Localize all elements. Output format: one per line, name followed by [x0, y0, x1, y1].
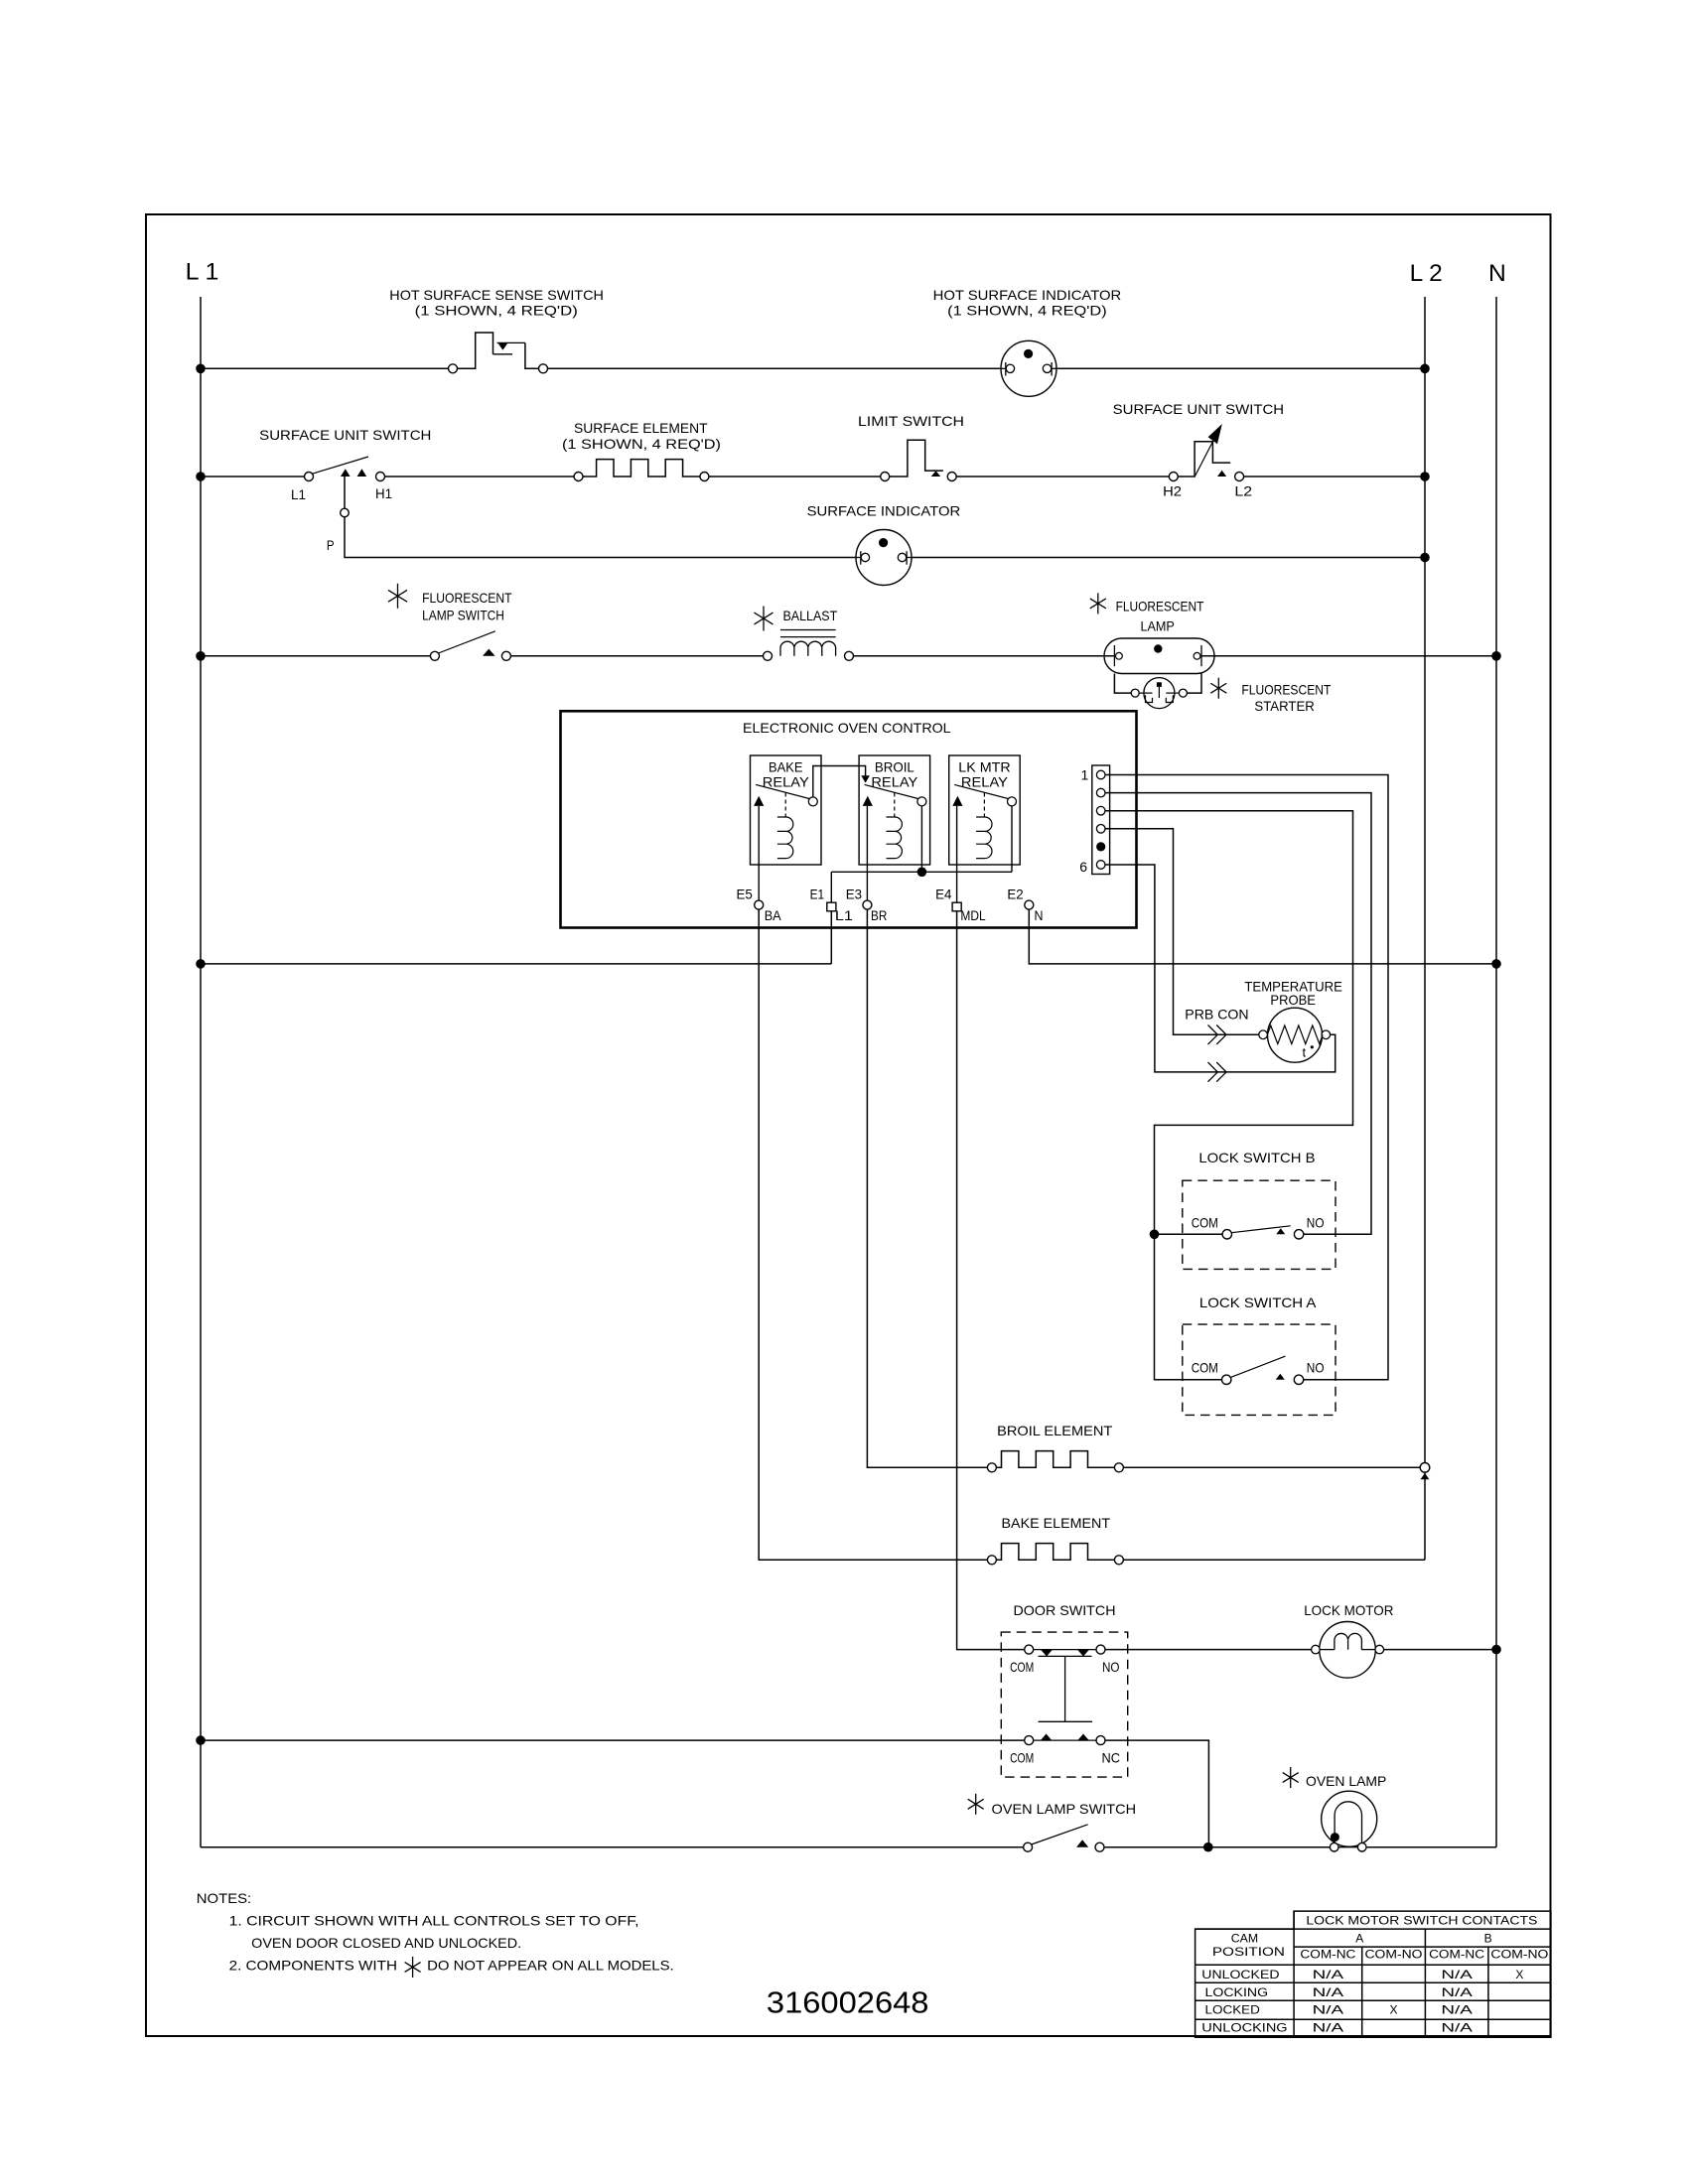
- junction L1/mid rail: [196, 959, 206, 969]
- svg-text:SURFACE INDICATOR: SURFACE INDICATOR: [807, 503, 961, 519]
- terminal E4: [952, 902, 961, 911]
- svg-text:OVEN LAMP: OVEN LAMP: [1306, 1773, 1386, 1789]
- terminal E2: [1025, 900, 1034, 909]
- drawing border frame: [146, 214, 1551, 2036]
- svg-text:H1: H1: [375, 485, 392, 501]
- wire surface element to limit switch: [709, 476, 881, 478]
- asterisk fluorescent starter: [1210, 678, 1226, 699]
- svg-text:UNLOCKING: UNLOCKING: [1201, 2021, 1287, 2035]
- svg-text:N: N: [1488, 260, 1506, 287]
- svg-text:A: A: [1355, 1932, 1363, 1946]
- svg-text:RELAY: RELAY: [763, 774, 810, 790]
- oven lamp switch: [1024, 1825, 1104, 1851]
- wire broil relay armature to E3: [866, 806, 868, 900]
- svg-text:E5: E5: [737, 887, 754, 902]
- svg-text:LOCK SWITCH B: LOCK SWITCH B: [1198, 1150, 1315, 1165]
- svg-text:316002648: 316002648: [767, 1985, 929, 2020]
- bus L2 (vertical): [1424, 297, 1426, 1463]
- junction L1/row1: [196, 364, 206, 374]
- svg-text:NO: NO: [1307, 1215, 1325, 1231]
- svg-text:(1 SHOWN, 4 REQ'D): (1 SHOWN, 4 REQ'D): [947, 303, 1106, 319]
- asterisk fluorescent lamp: [1090, 593, 1106, 614]
- svg-text:FLUORESCENT: FLUORESCENT: [1241, 682, 1331, 698]
- lock motor: [1312, 1622, 1384, 1679]
- bake element: [987, 1544, 1123, 1565]
- svg-text:LOCK MOTOR: LOCK MOTOR: [1304, 1602, 1393, 1618]
- svg-text:UNLOCKED: UNLOCKED: [1201, 1968, 1280, 1981]
- svg-text:BROIL ELEMENT: BROIL ELEMENT: [997, 1423, 1113, 1438]
- svg-text:t: t: [1303, 1045, 1307, 1060]
- junction pin3 wire / lock switch B COM: [1150, 1230, 1160, 1240]
- svg-text:DOOR SWITCH: DOOR SWITCH: [1014, 1602, 1116, 1618]
- svg-text:DO NOT APPEAR ON ALL MODELS.: DO NOT APPEAR ON ALL MODELS.: [427, 1958, 674, 1974]
- junction L1/row2: [196, 472, 206, 481]
- oven lamp: [1322, 1791, 1377, 1851]
- svg-text:OVEN LAMP SWITCH: OVEN LAMP SWITCH: [992, 1801, 1137, 1817]
- wire surface indicator to L2: [912, 557, 1425, 559]
- wire broil NO contact down: [920, 806, 922, 872]
- svg-text:1. CIRCUIT SHOWN WITH ALL CON: 1. CIRCUIT SHOWN WITH ALL CONTROLS SET T…: [229, 1913, 639, 1929]
- svg-text:NOTES:: NOTES:: [197, 1890, 251, 1906]
- svg-text:RELAY: RELAY: [871, 774, 918, 790]
- wire E4/MDL down to door switch COM: [957, 911, 1025, 1650]
- bus L1 (vertical): [200, 297, 202, 1847]
- wire L1 to surface unit switch: [201, 476, 305, 478]
- wire H1 to surface element: [385, 476, 575, 478]
- svg-text:STARTER: STARTER: [1254, 698, 1314, 714]
- surface element: [574, 460, 709, 481]
- junction L2/row1: [1420, 364, 1430, 374]
- svg-text:HOT SURFACE INDICATOR: HOT SURFACE INDICATOR: [933, 287, 1122, 303]
- junction door NC wire / lamp rail: [1203, 1843, 1213, 1852]
- svg-text:COM: COM: [1192, 1360, 1218, 1376]
- lock switch A dashed box: [1183, 1324, 1336, 1415]
- svg-text:POSITION: POSITION: [1212, 1945, 1285, 1959]
- wire E1 riser: [830, 872, 832, 902]
- hot surface sense switch: [449, 333, 548, 373]
- svg-text:LAMP SWITCH: LAMP SWITCH: [422, 607, 504, 622]
- svg-text:N/A: N/A: [1441, 1968, 1473, 1981]
- wire lk mtr relay armature to E4: [956, 806, 958, 902]
- connector PRB CON chevron 2: [1208, 1062, 1227, 1082]
- connector PRB CON chevron 1: [1208, 1025, 1227, 1045]
- wire bake NO contact to broil blade: [813, 766, 870, 797]
- svg-text:B: B: [1484, 1932, 1492, 1946]
- svg-text:N: N: [1035, 907, 1044, 923]
- wire pin3 to lock switches COM: [1105, 811, 1353, 1380]
- wire L1 to sense switch: [201, 367, 449, 369]
- svg-text:LOCK MOTOR SWITCH CONTACTS: LOCK MOTOR SWITCH CONTACTS: [1306, 1914, 1537, 1928]
- wire limit switch to H2: [956, 476, 1169, 478]
- svg-text:N/A: N/A: [1313, 2003, 1344, 2017]
- svg-text:OVEN DOOR CLOSED AND UNLOCKED.: OVEN DOOR CLOSED AND UNLOCKED.: [251, 1935, 521, 1951]
- svg-text:NO: NO: [1102, 1659, 1120, 1675]
- svg-text:E3: E3: [846, 887, 863, 902]
- wire pin1 to lock switch A NO: [1105, 775, 1388, 1380]
- svg-text:SURFACE UNIT SWITCH: SURFACE UNIT SWITCH: [1113, 401, 1284, 417]
- lock switch B dashed box: [1183, 1180, 1336, 1269]
- junction L2/row2: [1420, 472, 1430, 481]
- svg-text:X: X: [1515, 1968, 1523, 1981]
- svg-text:ELECTRONIC OVEN CONTROL: ELECTRONIC OVEN CONTROL: [743, 720, 951, 736]
- wire pin4 to probe connector: [1105, 829, 1259, 1035]
- svg-text:CAM: CAM: [1231, 1932, 1258, 1946]
- svg-text:LOCKED: LOCKED: [1205, 2003, 1261, 2017]
- fluorescent lamp switch: [430, 631, 510, 661]
- wire bake relay armature to E5: [758, 806, 760, 900]
- wire sense switch to hot surface indicator: [548, 367, 1002, 369]
- note 2 asterisk: [405, 1957, 421, 1978]
- limit switch: [881, 440, 957, 480]
- svg-text:L 2: L 2: [1410, 260, 1443, 287]
- terminal E3: [863, 900, 872, 909]
- lock switch B contacts: [1222, 1226, 1304, 1239]
- wire broil element to L2 terminal: [1123, 1466, 1420, 1468]
- svg-text:LK MTR: LK MTR: [958, 758, 1010, 774]
- svg-text:COM-NO: COM-NO: [1490, 1947, 1548, 1961]
- wire ballast to fluorescent lamp: [854, 655, 1116, 657]
- wire fluorescent lamp to N: [1200, 655, 1496, 657]
- electronic oven control box: [561, 711, 1137, 927]
- svg-text:L2: L2: [1234, 482, 1252, 498]
- svg-text:LOCK SWITCH A: LOCK SWITCH A: [1199, 1295, 1317, 1310]
- svg-text:H2: H2: [1163, 482, 1182, 498]
- surface unit switch (right): [1169, 424, 1243, 481]
- svg-text:N/A: N/A: [1313, 2021, 1344, 2035]
- wire P tap upper: [344, 477, 346, 508]
- svg-text:BALLAST: BALLAST: [783, 608, 838, 623]
- asterisk oven lamp switch: [968, 1794, 984, 1815]
- hot surface indicator lamp: [1001, 341, 1056, 396]
- connector J1 (6-pin): [1092, 765, 1110, 875]
- door switch upper contact (COM-NO): [1025, 1645, 1105, 1656]
- svg-text:N/A: N/A: [1441, 2003, 1473, 2017]
- relay K2 broil relay: [859, 755, 930, 865]
- wire E3/BR down to broil element: [867, 909, 987, 1467]
- svg-text:X: X: [1389, 2003, 1397, 2017]
- svg-text:6: 6: [1079, 859, 1087, 875]
- asterisk fluorescent lamp switch: [388, 584, 407, 609]
- asterisk oven lamp: [1283, 1767, 1299, 1788]
- svg-text:BAKE: BAKE: [769, 758, 802, 774]
- svg-text:SURFACE UNIT SWITCH: SURFACE UNIT SWITCH: [259, 427, 431, 443]
- svg-text:P: P: [327, 537, 335, 553]
- wire bake element to L2: [1123, 1559, 1425, 1561]
- svg-text:L1: L1: [835, 907, 853, 923]
- wire lamp left leg to starter: [1114, 674, 1131, 694]
- broil element: [987, 1451, 1123, 1472]
- surface indicator lamp: [856, 530, 912, 586]
- terminal broil/bake to L2: [1420, 1463, 1430, 1480]
- fluorescent lamp: [1104, 638, 1214, 674]
- svg-text:COM-NC: COM-NC: [1300, 1947, 1355, 1961]
- svg-text:N/A: N/A: [1441, 2021, 1473, 2035]
- door switch dashed box: [1001, 1632, 1127, 1777]
- svg-text:L1: L1: [291, 486, 306, 502]
- svg-text:SURFACE ELEMENT: SURFACE ELEMENT: [574, 420, 708, 436]
- door switch lower contact (COM-NC): [1025, 1734, 1105, 1745]
- wire lamp right leg to starter: [1187, 674, 1201, 694]
- svg-text:E4: E4: [935, 887, 952, 902]
- svg-text:NO: NO: [1307, 1360, 1325, 1376]
- svg-text:COM-NO: COM-NO: [1365, 1947, 1423, 1961]
- wire L1 to E1 (mid rail): [201, 911, 831, 964]
- connector P: [341, 508, 350, 517]
- ballast: [764, 630, 854, 661]
- svg-text:N/A: N/A: [1441, 1985, 1473, 1999]
- wire E1 to relay contacts: [831, 871, 1012, 873]
- bus N (vertical): [1495, 297, 1497, 1847]
- lock switch A contacts: [1222, 1356, 1304, 1384]
- svg-text:E2: E2: [1007, 887, 1024, 902]
- door switch actuator link: [1039, 1656, 1093, 1721]
- wire L1 to door switch lower COM: [201, 1739, 1025, 1741]
- wire hot surface indicator to L2: [1056, 367, 1425, 369]
- svg-text:COM: COM: [1010, 1750, 1034, 1766]
- svg-text:LIMIT SWITCH: LIMIT SWITCH: [858, 413, 964, 429]
- wire L1 to fluorescent lamp switch: [201, 655, 430, 657]
- svg-text:COM: COM: [1010, 1659, 1034, 1675]
- junction L2/row3: [1420, 553, 1430, 563]
- wire pin2 to lock switch B NO: [1105, 793, 1371, 1235]
- surface unit switch (left): [305, 457, 385, 481]
- svg-text:N/A: N/A: [1313, 1968, 1344, 1981]
- svg-text:FLUORESCENT: FLUORESCENT: [422, 590, 512, 606]
- svg-text:NC: NC: [1102, 1750, 1121, 1766]
- wire door switch NO to lock motor: [1105, 1649, 1318, 1651]
- wire P tap lower: [345, 517, 856, 558]
- svg-text:BROIL: BROIL: [875, 758, 914, 774]
- svg-text:BR: BR: [871, 907, 887, 923]
- wire door switch NC down to lamp rail: [1105, 1740, 1208, 1847]
- wire E2 to N (mid rail): [1029, 909, 1496, 964]
- svg-text:(1 SHOWN, 4 REQ'D): (1 SHOWN, 4 REQ'D): [415, 303, 578, 319]
- svg-text:RELAY: RELAY: [961, 774, 1009, 790]
- svg-text:COM-NC: COM-NC: [1429, 1947, 1484, 1961]
- svg-text:MDL: MDL: [960, 907, 985, 923]
- wire lock motor to N: [1384, 1649, 1496, 1651]
- svg-text:BAKE ELEMENT: BAKE ELEMENT: [1002, 1515, 1111, 1531]
- table lock motor switch contacts grid: [1196, 1911, 1551, 2037]
- svg-text:FLUORESCENT: FLUORESCENT: [1116, 599, 1204, 614]
- wire L2-term to L2 bus: [1244, 476, 1425, 478]
- asterisk ballast: [755, 607, 774, 631]
- junction N/mid rail: [1491, 959, 1501, 969]
- junction L1/row4: [196, 651, 206, 661]
- fluorescent starter: [1131, 678, 1187, 709]
- svg-text:(1 SHOWN, 4 REQ'D): (1 SHOWN, 4 REQ'D): [562, 436, 721, 452]
- junction N/lock motor row: [1491, 1645, 1501, 1655]
- svg-text:L 1: L 1: [186, 259, 219, 286]
- svg-text:BA: BA: [765, 907, 782, 923]
- svg-text:E1: E1: [810, 887, 825, 902]
- wire L1 down-left corner to oven lamp switch: [201, 1846, 1024, 1848]
- wire junction to lock switch B COM: [1155, 1233, 1223, 1235]
- svg-text:PRB CON: PRB CON: [1185, 1007, 1248, 1023]
- svg-text:N/A: N/A: [1313, 1985, 1344, 1999]
- terminal E5: [755, 900, 764, 909]
- wire lk mtr NO contact down: [1011, 806, 1013, 872]
- junction N/row4: [1491, 651, 1501, 661]
- wire switch to ballast: [510, 655, 763, 657]
- junction broil contact / E1 wire: [917, 868, 927, 878]
- wire between oven lamp terminals: [1338, 1846, 1357, 1848]
- svg-text:LAMP: LAMP: [1141, 618, 1175, 634]
- relay K3 lock motor relay: [949, 755, 1020, 865]
- svg-text:HOT SURFACE SENSE SWITCH: HOT SURFACE SENSE SWITCH: [389, 287, 604, 303]
- wire oven lamp to N corner: [1366, 1846, 1496, 1848]
- bus L2 lower segment to bake element: [1424, 1472, 1426, 1560]
- wire pin6 to probe return: [1105, 865, 1336, 1072]
- svg-text:LOCKING: LOCKING: [1205, 1985, 1269, 1999]
- svg-text:PROBE: PROBE: [1270, 992, 1316, 1008]
- wire E5/BA down to bake element: [759, 909, 987, 1560]
- svg-text:2. COMPONENTS WITH: 2. COMPONENTS WITH: [229, 1958, 397, 1974]
- relay K1 bake relay: [751, 755, 822, 865]
- svg-text:COM: COM: [1192, 1215, 1218, 1231]
- terminal E1: [827, 902, 836, 911]
- temperature probe: [1259, 1008, 1331, 1062]
- junction L1/door switch row: [196, 1735, 206, 1745]
- svg-text:1: 1: [1081, 767, 1089, 783]
- wire oven lamp switch to oven lamp: [1104, 1846, 1330, 1848]
